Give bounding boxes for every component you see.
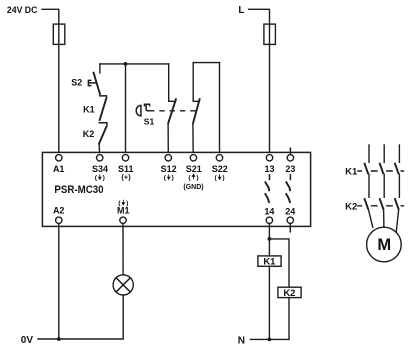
wire between contact rows pole 3 [398,174,400,197]
svg-text:S22: S22 [212,164,228,174]
wire S1 contact 2 to S21 [192,124,194,155]
contact K1 motor pole 2 [380,163,384,174]
fuse F2 [264,24,276,44]
svg-text:S1: S1 [144,117,155,127]
contact 13-14 internal (dashed safety contacts) [265,175,270,203]
terminal 14 [266,217,272,223]
wire 3-phase line L1 [368,145,370,162]
contact K2 motor pole 2 [380,198,384,209]
wire N rail [250,338,289,340]
relay coil K1 [258,256,281,268]
terminal M1 [120,217,126,223]
wire stub below terminal 24 [289,224,291,232]
svg-text:(+): (+) [121,173,131,182]
svg-text:S12: S12 [161,164,177,174]
svg-text:13: 13 [264,164,274,174]
wire pole 3 to motor [396,209,398,231]
wire K2 contact to S34 [98,144,100,154]
svg-text:24V DC: 24V DC [7,5,38,15]
wire mechanical link S1 (dashed) [150,110,197,112]
svg-text:M: M [377,236,391,254]
terminal A2 [56,217,62,223]
svg-text:S21: S21 [186,164,202,174]
relay coil K2 [278,287,301,299]
contact K1 (feedback NO) [83,96,106,121]
wire S21 branch upper [193,63,199,102]
relay block PSR-MC30 [42,152,310,226]
svg-text:0V: 0V [21,335,34,346]
contact K2 motor pole 3 [395,198,399,209]
contact 23-24 internal (dashed safety contacts) [286,175,291,203]
node junction 14 branch [268,237,272,241]
wire mechanical link K2 (dashed) [358,205,404,207]
wire 14 to K1 coil, junction [268,224,270,256]
wire stub above terminal 23 [289,148,291,155]
terminal A1 [56,155,62,161]
wire A2 to 0V rail [58,224,60,340]
wire through fuse F1 to terminal A1 [58,24,60,155]
svg-text:14: 14 [264,206,274,216]
node junction K1 / N [268,338,272,342]
wire between contact rows pole 1 [368,174,370,197]
wire 3-phase line L2 [383,145,385,162]
wire 0V rail [38,295,123,339]
terminal S11 [122,155,128,161]
svg-text:(GND): (GND) [183,184,203,191]
terminal S34 [97,155,103,161]
terminal 24 [287,217,293,223]
svg-text:24: 24 [285,206,295,216]
wire between contact rows pole 2 [383,174,385,197]
node junction A2 / 0V [57,337,61,341]
wire branch to K2 coil [269,239,289,287]
wire 3-phase line L3 [398,145,400,162]
terminal 13 [266,155,272,161]
motor M [367,227,402,262]
contact K2 (feedback NO) [83,123,107,145]
wire S12 branch upper [169,64,176,101]
wire S1 contact 1 to S12 [167,124,169,155]
contact K1 motor pole 1 [364,163,368,174]
svg-text:PSR-MC30: PSR-MC30 [54,184,103,196]
wire K2 coil to N rail [288,298,290,340]
contact S1 channel 2 (NC) [193,98,200,123]
wire S11 to bus [125,64,127,155]
svg-text:23: 23 [285,164,295,174]
wire mechanical link K1 (dashed) [358,170,404,172]
contact S2 (NC pushbutton) [71,64,100,95]
contact S1 channel 1 (NC) [168,98,176,123]
wire bus to S22 [219,63,221,155]
actuator S1 emergency stop head [136,104,154,126]
svg-text:S2: S2 [71,78,82,88]
fuse F1 [53,24,65,44]
svg-text:K1: K1 [83,104,95,114]
wire pole 2 to motor [383,209,385,227]
svg-text:A1: A1 [53,164,65,174]
svg-text:A2: A2 [53,205,65,215]
wire top bus channel 2 [193,62,219,64]
svg-text:S34: S34 [92,164,108,174]
terminal S21 [190,155,196,161]
wire K1 coil to N rail [268,266,270,339]
terminal 23 [287,155,293,161]
wire top bus channel 1 [100,63,169,65]
lamp H1 [113,275,133,295]
node junction S11 bus [124,62,128,66]
wire 24V DC rail to fuse F1 [42,9,59,24]
contact K2 motor pole 1 [364,198,368,209]
svg-text:M1: M1 [117,205,130,215]
svg-text:K1: K1 [345,166,358,177]
svg-text:K2: K2 [345,201,357,212]
terminal S12 [165,155,171,161]
wire M1 to lamp [122,224,124,275]
svg-text:L: L [238,5,244,16]
svg-text:N: N [238,335,245,346]
svg-text:K2: K2 [83,129,95,139]
wire pole 1 to motor [368,209,372,227]
wire L rail to fuse F2 [249,9,270,24]
wire through fuse F2 to terminal 13 [269,24,271,155]
terminal S22 [216,155,222,161]
contact K1 motor pole 3 [395,163,399,174]
